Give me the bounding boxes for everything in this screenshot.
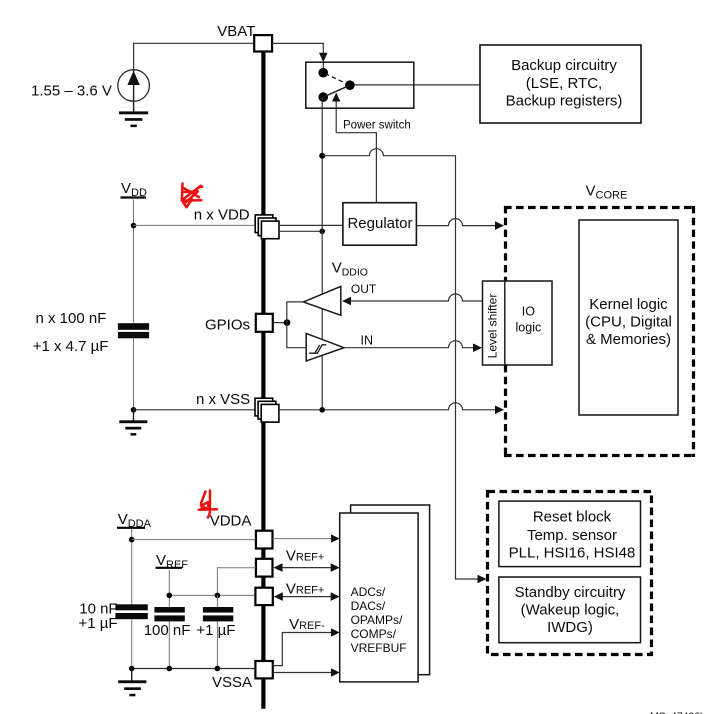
- power switch box: [306, 62, 414, 108]
- svg-text:(Wakeup logic,: (Wakeup logic,: [521, 602, 620, 619]
- node on VSS wire: [319, 407, 325, 413]
- wire switch to backup circuitry: [355, 84, 481, 86]
- svg-text:PLL, HSI16, HSI48: PLL, HSI16, HSI48: [509, 545, 636, 562]
- wire VREF+ lower double arrow: [280, 596, 333, 598]
- wire VBAT pin to power switch: [272, 43, 323, 53]
- svg-text:Power switch: Power switch: [343, 120, 411, 132]
- wire buffer bracket: [287, 302, 306, 348]
- wire VREF stub: [168, 570, 170, 607]
- pin stack n x VSS: [255, 398, 279, 422]
- wire VSSA to analog block: [273, 672, 332, 674]
- svg-text:& Memories): & Memories): [586, 331, 671, 348]
- dashed domain box VCORE: [504, 206, 695, 457]
- svg-text:(LSE, RTC,: (LSE, RTC,: [526, 75, 602, 92]
- svg-text:GPIOs: GPIOs: [205, 317, 250, 334]
- wire VDDA rail: [131, 529, 133, 604]
- node cap3-gnd: [215, 666, 221, 672]
- switch contact (from VBAT): [318, 68, 328, 78]
- box Backup circuitry: [480, 45, 641, 123]
- wire switch-VDD vertical: [321, 97, 323, 410]
- svg-text:OPAMPs/: OPAMPs/: [351, 613, 403, 627]
- pin stack n x VDD: [255, 215, 279, 239]
- svg-text:OUT: OUT: [351, 282, 377, 296]
- wire VDD pin to regulator: [279, 224, 343, 226]
- svg-text:n x VDD: n x VDD: [194, 207, 250, 224]
- wire VDDA to pin: [132, 539, 256, 541]
- node VREF-100nF: [167, 593, 173, 599]
- wire VDD to pin stack: [134, 224, 259, 226]
- op-amp output buffer (points left): [303, 286, 340, 315]
- pin VSSA: [255, 661, 272, 678]
- switch control arrow: [335, 101, 337, 133]
- svg-text:VREF-: VREF-: [289, 616, 325, 633]
- red annotation mark 1: [182, 184, 202, 208]
- ground (below source): [119, 101, 148, 127]
- capacitor 100nF: [154, 607, 184, 669]
- wire OUT from level shifter (hop over wire A): [351, 294, 483, 301]
- switch contact (from VDD): [318, 92, 328, 102]
- wire regulator output to VCORE (hop over wire A): [416, 219, 495, 226]
- node at regulator input: [319, 229, 325, 235]
- ground (VSS): [119, 410, 147, 436]
- wire VREF-: [273, 633, 332, 666]
- svg-text:VREFBUF: VREFBUF: [351, 641, 407, 655]
- box Reset block: [499, 501, 641, 566]
- wire VREF+ upper double arrow: [280, 567, 333, 569]
- wire source to VBAT pin: [134, 43, 254, 70]
- svg-text:MSv47492V3: MSv47492V3: [650, 711, 704, 714]
- node VSS junction: [131, 407, 137, 413]
- svg-text:100 nF: 100 nF: [144, 622, 191, 639]
- label VDDA (supply flag): [117, 511, 152, 530]
- box Regulator: [343, 203, 417, 246]
- pin VBAT: [254, 35, 272, 51]
- svg-text:+1 µF: +1 µF: [196, 622, 235, 639]
- red annotation mark 2: [199, 491, 217, 518]
- switch common contact: [345, 80, 355, 90]
- svg-text:Standby circuitry: Standby circuitry: [515, 584, 626, 601]
- schmitt hysteresis glyph: [309, 345, 326, 353]
- svg-text:Temp. sensor: Temp. sensor: [527, 527, 617, 544]
- wire VSS to pin stack: [134, 409, 259, 411]
- box Kernel logic: [579, 220, 678, 415]
- svg-text:Reset block: Reset block: [533, 509, 612, 526]
- wire A to standby (hop over control wire): [322, 149, 478, 579]
- wire VDDA pin to analog block: [273, 538, 333, 540]
- svg-text:n x VSS: n x VSS: [196, 391, 250, 408]
- box level shifter / IO logic: [483, 281, 553, 365]
- svg-text:Regulator: Regulator: [347, 215, 412, 232]
- svg-text:VDDIO: VDDIO: [332, 259, 368, 278]
- svg-text:VCORE: VCORE: [586, 183, 628, 202]
- svg-text:Backup registers): Backup registers): [506, 93, 623, 110]
- node VDDA: [129, 537, 135, 543]
- wire VREF+ upper to cap node: [217, 568, 256, 596]
- svg-text:+1 x 4.7 µF: +1 x 4.7 µF: [33, 338, 109, 355]
- svg-text:IN: IN: [361, 334, 374, 348]
- svg-text:VDDA: VDDA: [210, 513, 252, 530]
- wire VDD pin lower lead: [279, 230, 322, 232]
- svg-text:VREF+: VREF+: [286, 581, 324, 598]
- wire regulator control (regulator top to switch arrow): [336, 133, 376, 203]
- svg-text:(CPU, Digital: (CPU, Digital: [585, 314, 672, 331]
- svg-text:IWDG): IWDG): [547, 619, 593, 636]
- dashed box (reset/standby domain): [488, 492, 652, 655]
- svg-text:COMPs/: COMPs/: [351, 627, 397, 641]
- svg-text:logic: logic: [516, 321, 542, 335]
- node VREF-1uF: [215, 593, 221, 599]
- svg-text:1.55 – 3.6 V: 1.55 – 3.6 V: [31, 82, 112, 99]
- voltage source V1 (1.55-3.6 V battery): [118, 70, 150, 102]
- wire IN to level shifter (hop over wire A): [344, 341, 473, 348]
- wire VSS to VCORE (hop over wire A): [279, 403, 495, 410]
- svg-text:ADCs/: ADCs/: [351, 585, 386, 599]
- box analog peripherals ADCs/DACs: [340, 513, 418, 682]
- pin VREF+ lower: [255, 588, 272, 605]
- svg-text:+1 µF: +1 µF: [79, 615, 118, 632]
- node VDD junction: [131, 223, 137, 229]
- wire VDD rail down: [133, 200, 135, 323]
- node line VSSA: [132, 668, 256, 670]
- pin VDDA: [256, 531, 273, 549]
- svg-text:IO: IO: [522, 305, 535, 319]
- capacitor +1uF: [203, 595, 233, 668]
- wire GPIO pin to buffers: [273, 322, 287, 324]
- svg-text:Level shifter: Level shifter: [486, 294, 500, 359]
- switch blade: [323, 85, 350, 97]
- box analog peripherals (back): [351, 505, 430, 675]
- pin VREF+ upper: [256, 559, 273, 577]
- node line VREF: [169, 594, 255, 596]
- svg-text:Backup circuitry: Backup circuitry: [511, 57, 617, 74]
- svg-text:VBAT: VBAT: [217, 23, 255, 40]
- box Standby circuitry: [499, 577, 641, 643]
- capacitor n x 100nF (VDD decoupling): [118, 323, 149, 410]
- thick supply line (package pin rail): [261, 52, 265, 709]
- label VREF (flag): [156, 552, 189, 571]
- switch dashed throw: [325, 74, 349, 85]
- node cap1-gnd: [129, 666, 135, 672]
- svg-text:Kernel logic: Kernel logic: [589, 296, 668, 313]
- ground (VSSA): [118, 669, 146, 697]
- node GPIO: [284, 319, 291, 326]
- pin GPIOs: [256, 314, 273, 332]
- svg-text:n x 100 nF: n x 100 nF: [36, 310, 107, 327]
- label VDD (supply flag): [121, 180, 147, 199]
- capacitor 10nF+1uF: [115, 604, 147, 668]
- svg-text:DACs/: DACs/: [351, 599, 386, 613]
- svg-text:VREF+: VREF+: [286, 548, 324, 565]
- svg-text:VDD: VDD: [121, 180, 147, 199]
- input buffer (schmitt, points right): [306, 333, 344, 361]
- svg-text:VSSA: VSSA: [212, 674, 252, 691]
- node VBAT/VDD tap: [319, 153, 325, 159]
- node cap2-gnd: [167, 666, 173, 672]
